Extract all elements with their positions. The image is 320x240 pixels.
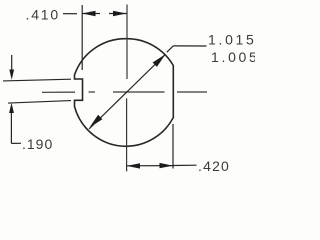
svg-text:1.015: 1.015	[208, 31, 255, 47]
dimension .190 : extension lines	[3, 79, 71, 103]
svg-text:.420: .420	[198, 158, 230, 174]
vertical centerline	[126, 5, 128, 172]
diameter arrow upper right	[153, 54, 166, 67]
.410 left arrow	[82, 11, 96, 16]
dimension .410 : leader and dimension line	[63, 5, 127, 70]
leader for 1.015 / 1.005	[167, 46, 207, 52]
dimension .190 : dimension line with elbow	[11, 55, 21, 143]
.420 left arrow	[127, 163, 140, 168]
dimension .420 : dimension line	[127, 124, 197, 169]
svg-text:.190: .190	[22, 136, 53, 152]
.410 right arrow	[113, 11, 127, 16]
arrowheads (solid)	[9, 11, 173, 169]
D-hole outline with left flat, anti-rotation notch and right flat	[75, 39, 174, 147]
right extension line (right flat)	[172, 124, 174, 169]
diameter arrow lower left	[90, 115, 103, 128]
svg-text:.410: .410	[26, 7, 60, 23]
diagonal diameter dimension line	[89, 54, 166, 129]
.190 top arrow (down)	[9, 70, 14, 80]
.190 bottom arrow (up)	[9, 103, 14, 113]
left extension line (notch face)	[81, 5, 83, 70]
.420 right arrow	[160, 163, 173, 168]
horizontal centerline	[42, 91, 207, 93]
svg-text:1.005: 1.005	[211, 49, 255, 65]
